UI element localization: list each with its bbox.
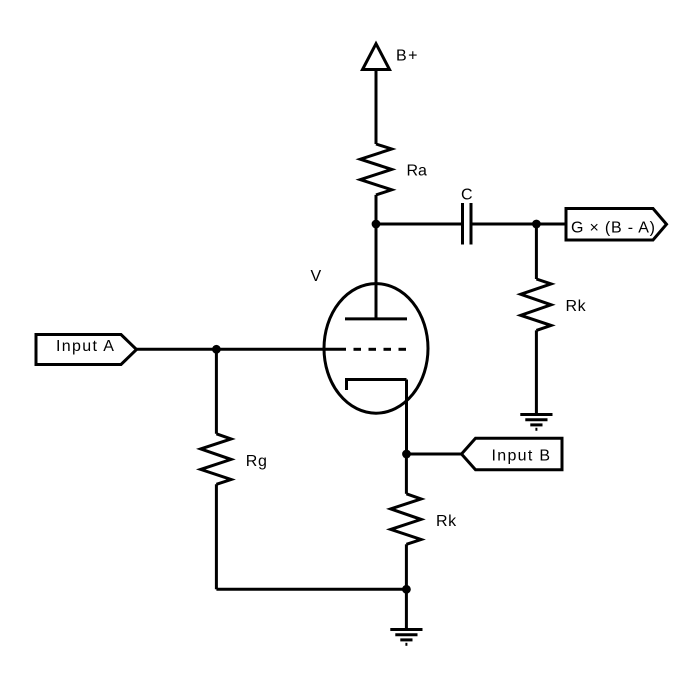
- svg-text:C: C: [461, 187, 473, 204]
- node: output / Rk right junction: [532, 220, 541, 229]
- cathode lead down to node: [405, 380, 408, 455]
- bottom rail wire: [216, 588, 406, 591]
- ground right: [520, 415, 552, 430]
- svg-text:B+: B+: [396, 48, 419, 65]
- resistor Rk bottom: [391, 494, 421, 545]
- wire bottom node to ground: [405, 589, 408, 629]
- plate bar: [345, 317, 407, 320]
- wire Input A to grid: [137, 348, 347, 351]
- cathode: [347, 380, 407, 391]
- svg-text:Rk: Rk: [566, 298, 587, 315]
- resistor Ra: [360, 144, 391, 195]
- svg-text:Rg: Rg: [246, 453, 268, 470]
- wire Rg to bottom rail: [215, 484, 218, 589]
- wire output node to Rk right: [535, 224, 538, 279]
- node: Ra / C / plate junction: [372, 220, 381, 229]
- output flag G x (B - A): [566, 209, 667, 241]
- grid dashes: [354, 348, 407, 351]
- svg-text:G × (B - A): G × (B - A): [571, 220, 656, 237]
- node: Input A / Rg junction: [212, 345, 221, 354]
- capacitor C left plate: [461, 203, 464, 245]
- svg-text:Input B: Input B: [492, 448, 552, 465]
- resistor Rg: [201, 434, 231, 485]
- resistor Rk right: [521, 279, 551, 330]
- svg-text:V: V: [311, 268, 322, 285]
- node: cathode / Input B / Rk junction: [402, 450, 411, 459]
- wire B+ to Ra: [375, 70, 378, 145]
- capacitor C right plate: [470, 203, 473, 245]
- B+ power terminal: [363, 44, 390, 70]
- wire node to Rk bottom: [405, 454, 408, 494]
- Input B flag: [462, 438, 563, 470]
- wire capacitor to output flag: [473, 223, 567, 226]
- triode V envelope: [324, 284, 428, 414]
- Input A flag: [36, 335, 137, 365]
- svg-text:Input A: Input A: [56, 338, 115, 355]
- wire Ra to node and tube plate: [375, 195, 378, 319]
- ground bottom: [390, 630, 422, 645]
- wire node to capacitor: [376, 223, 461, 226]
- wire Rk bottom to node: [405, 544, 408, 589]
- svg-text:Ra: Ra: [407, 163, 428, 180]
- svg-text:Rk: Rk: [436, 513, 457, 530]
- node: bottom rail / ground junction: [402, 585, 411, 594]
- wire Rk right to ground: [535, 330, 538, 415]
- wire node A to Rg: [215, 349, 218, 434]
- wire cathode node to Input B: [407, 453, 462, 456]
